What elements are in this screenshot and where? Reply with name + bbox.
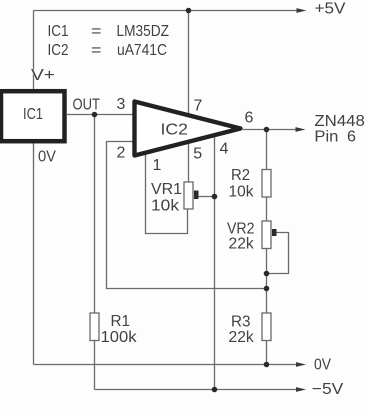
svg-text:R2: R2 [231, 167, 250, 184]
wire R3 bottom [266, 341, 268, 365]
wire pin5 [188, 141, 190, 182]
svg-text:0V: 0V [314, 357, 331, 374]
svg-text:−5V: −5V [312, 381, 344, 398]
svg-text:V+: V+ [31, 67, 55, 84]
resistor R3 [262, 313, 271, 341]
wire pin7 [188, 11, 190, 117]
wire R2 to VR2 [266, 197, 268, 221]
svg-text:=: = [91, 23, 102, 40]
wire -5V rail [95, 389, 299, 391]
svg-text:3: 3 [117, 96, 126, 113]
wire 0V rail [34, 364, 299, 366]
svg-text:IC1: IC1 [23, 106, 43, 123]
node dot output/R2 [264, 127, 270, 133]
node dot pin4/-5V [212, 387, 218, 393]
svg-text:+5V: +5V [315, 1, 346, 18]
svg-text:10k: 10k [229, 184, 255, 201]
svg-text:4: 4 [220, 141, 229, 158]
wire VR1 wiper [197, 196, 215, 198]
svg-text:22k: 22k [229, 236, 255, 253]
svg-text:1: 1 [153, 157, 162, 174]
svg-text:IC1: IC1 [48, 23, 69, 40]
node dot pin7/+5V [186, 8, 192, 14]
node dot feedback/column [264, 286, 270, 292]
wire R2 top [266, 130, 268, 170]
wire V+ supply [33, 11, 35, 90]
wire VR2 bottom column [266, 249, 268, 314]
arrow -5V [296, 387, 306, 392]
wire pin4 [214, 133, 216, 390]
svg-text:uA741C: uA741C [117, 42, 167, 59]
wire VR2 wiper return [267, 233, 289, 274]
arrow +5V [297, 8, 307, 13]
wire pin1 loop [146, 152, 188, 234]
resistor R2 [262, 170, 271, 198]
node dot VR1 wiper/pin4 [212, 194, 218, 200]
svg-text:ZN448: ZN448 [314, 113, 365, 130]
node dot OUT/R1 [92, 112, 98, 118]
svg-text:OUT: OUT [73, 97, 101, 114]
VR1 wiper tab [194, 191, 199, 200]
arrow 0V [296, 362, 306, 367]
wire R1 column bottom [94, 341, 96, 390]
wire R1 column top [94, 115, 96, 314]
svg-text:0V: 0V [38, 149, 56, 166]
wire OUT to pin3 [67, 114, 133, 116]
op-amp U1 IC2 triangle [135, 102, 241, 156]
wire pin2 stub and feedback [107, 142, 267, 289]
wire op-amp output [243, 129, 297, 131]
svg-text:5: 5 [193, 146, 202, 163]
svg-text:2: 2 [117, 145, 126, 162]
svg-text:VR1: VR1 [151, 181, 182, 198]
wire IC1 0V down [33, 143, 35, 365]
svg-text:7: 7 [194, 98, 203, 115]
svg-text:IC2: IC2 [48, 42, 69, 59]
node dot R3/0V [264, 362, 270, 368]
IC1 box [1, 91, 65, 141]
svg-text:6: 6 [347, 129, 356, 146]
svg-text:IC2: IC2 [161, 122, 189, 139]
svg-text:10k: 10k [151, 198, 180, 215]
potentiometer VR2 [262, 221, 271, 249]
node dot VR2 wiper return [264, 271, 270, 277]
arrow output [296, 127, 306, 132]
svg-text:=: = [91, 42, 102, 59]
svg-text:R3: R3 [231, 314, 251, 331]
svg-text:100k: 100k [101, 329, 138, 346]
svg-text:LM35DZ: LM35DZ [117, 23, 170, 40]
resistor R1 [90, 313, 99, 341]
potentiometer VR1 [184, 182, 193, 209]
VR2 wiper tab [272, 229, 277, 236]
svg-text:22k: 22k [229, 329, 255, 346]
svg-text:R1: R1 [111, 313, 131, 330]
svg-text:Pin: Pin [314, 129, 338, 146]
svg-text:6: 6 [245, 110, 254, 127]
wire +5V rail [34, 10, 299, 12]
